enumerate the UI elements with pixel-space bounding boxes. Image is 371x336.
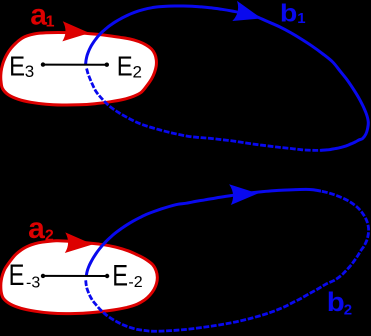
svg-text:b: b	[280, 0, 298, 27]
svg-text:2: 2	[344, 302, 352, 319]
svg-text:E: E	[9, 259, 25, 292]
svg-text:2: 2	[133, 63, 142, 82]
svg-text:-2: -2	[128, 274, 142, 291]
cut segment E3-E2	[43, 64, 107, 66]
branch point dot E2	[105, 62, 109, 66]
svg-text:a: a	[28, 212, 45, 245]
svg-text:-3: -3	[26, 275, 40, 292]
svg-text:2: 2	[45, 227, 54, 244]
cut segment E-3 - E-2	[43, 275, 107, 277]
branch point dot E3	[41, 62, 45, 66]
loop b2 dashed part	[86, 191, 369, 331]
loop b2 solid part	[86, 189, 321, 276]
loop b1 dashed part	[87, 69, 320, 151]
branch point dot E-2	[105, 274, 109, 278]
svg-text:1: 1	[297, 10, 305, 27]
svg-text:1: 1	[46, 14, 55, 31]
arrowhead on a1	[62, 21, 90, 42]
svg-text:E: E	[112, 259, 128, 292]
branch point dot E-3	[41, 274, 45, 278]
cut oval a1 around E3-E2	[1, 33, 157, 106]
svg-text:b: b	[327, 287, 345, 317]
arrowhead on a2	[64, 232, 93, 254]
cut oval a2 around E-3 - E-2	[1, 241, 158, 314]
svg-text:E: E	[117, 50, 133, 81]
arrowhead on b2	[229, 183, 258, 205]
loop b1 solid part	[86, 6, 369, 150]
svg-text:3: 3	[25, 62, 34, 81]
svg-text:E: E	[9, 50, 25, 81]
arrowhead on b1	[232, 1, 264, 28]
